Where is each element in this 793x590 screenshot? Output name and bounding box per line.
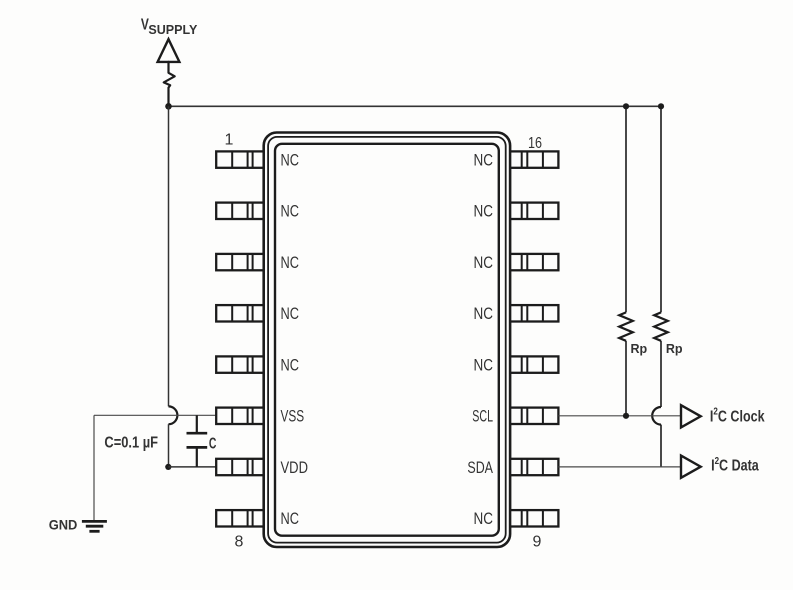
label I2C Data bbox=[711, 455, 759, 474]
capacitor C1 plates bbox=[187, 433, 208, 447]
svg-text:I2C Data: I2C Data bbox=[711, 455, 759, 474]
pin 12 bbox=[510, 356, 558, 372]
pin 2 bbox=[216, 203, 263, 219]
wire SDA bbox=[558, 466, 681, 468]
pin 7 bbox=[216, 459, 263, 475]
pin 1 bbox=[216, 151, 263, 167]
capacitor C1 top lead bbox=[196, 415, 198, 433]
wire hop over SCL wire bbox=[652, 407, 661, 425]
svg-text:GND: GND bbox=[49, 518, 78, 533]
IC U1 package inner bbox=[275, 144, 499, 536]
IC U1 package outer bbox=[264, 133, 510, 548]
pin 9 bbox=[510, 510, 558, 526]
svg-text:SUPPLY: SUPPLY bbox=[148, 22, 197, 37]
junction supply rail left bbox=[165, 103, 172, 110]
pin 16 bbox=[510, 151, 558, 167]
svg-text:NC: NC bbox=[474, 357, 494, 375]
pin 3 bbox=[216, 254, 263, 270]
junction SCL at R1 bbox=[623, 413, 629, 419]
ground bbox=[82, 521, 107, 531]
svg-text:NC: NC bbox=[281, 357, 300, 375]
svg-text:I2C Clock: I2C Clock bbox=[710, 406, 765, 425]
svg-text:NC: NC bbox=[474, 510, 494, 528]
wire VDD bbox=[168, 466, 216, 468]
svg-text:C=0.1 µF: C=0.1 µF bbox=[104, 434, 158, 451]
svg-text:NC: NC bbox=[474, 152, 494, 170]
svg-text:NC: NC bbox=[281, 254, 300, 272]
svg-text:NC: NC bbox=[281, 510, 300, 528]
wire SCL bbox=[558, 415, 681, 417]
svg-text:1: 1 bbox=[225, 132, 234, 149]
svg-text:SDA: SDA bbox=[467, 459, 493, 477]
pin 14 bbox=[510, 254, 558, 270]
wire supply vertical lower bbox=[168, 424, 170, 467]
pin 5 bbox=[216, 356, 263, 372]
resistor R2 Rp (SDA pull-up) bbox=[652, 106, 668, 467]
svg-text:VSS: VSS bbox=[281, 408, 305, 426]
buffer I2C data bbox=[681, 456, 701, 478]
junction supply rail at R1 bbox=[623, 103, 629, 109]
svg-text:NC: NC bbox=[474, 305, 494, 323]
pin 6 bbox=[216, 408, 263, 424]
svg-text:8: 8 bbox=[235, 533, 244, 550]
resistor R1 Rp (SCL pull-up) bbox=[619, 106, 633, 416]
wire VSS to ground bbox=[93, 415, 95, 520]
wire hop over VSS wire bbox=[169, 406, 178, 424]
junction supply rail at R2 bbox=[658, 103, 664, 109]
pin 10 bbox=[510, 459, 558, 475]
pin 11 bbox=[510, 408, 558, 424]
svg-text:NC: NC bbox=[474, 203, 494, 221]
wire VSS horizontal bbox=[94, 414, 216, 416]
power symbol squiggle lead bbox=[164, 62, 175, 104]
svg-text:NC: NC bbox=[281, 203, 300, 221]
label I2C Clock bbox=[710, 406, 765, 425]
wire top supply rail bbox=[169, 105, 662, 107]
svg-text:Rp: Rp bbox=[666, 341, 683, 356]
svg-text:VDD: VDD bbox=[281, 459, 309, 477]
pin 4 bbox=[216, 305, 263, 321]
pin 8 bbox=[216, 510, 263, 526]
svg-text:NC: NC bbox=[281, 305, 300, 323]
pin 15 bbox=[510, 203, 558, 219]
power symbol VSUPPLY triangle bbox=[158, 39, 180, 62]
wire supply vertical upper bbox=[168, 106, 170, 406]
svg-text:NC: NC bbox=[281, 152, 300, 170]
svg-text:16: 16 bbox=[528, 135, 542, 152]
svg-text:Rp: Rp bbox=[631, 341, 648, 356]
capacitor C1 bottom lead bbox=[196, 447, 198, 467]
IC U1 package bevel bbox=[268, 137, 506, 543]
pin 13 bbox=[510, 305, 558, 321]
buffer I2C clock bbox=[681, 405, 701, 427]
junction VDD node bbox=[165, 464, 171, 470]
svg-text:NC: NC bbox=[474, 254, 494, 272]
svg-text:9: 9 bbox=[533, 534, 542, 551]
svg-text:C: C bbox=[209, 436, 217, 453]
svg-text:SCL: SCL bbox=[472, 408, 493, 426]
